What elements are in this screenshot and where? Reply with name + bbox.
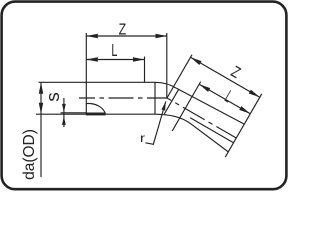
- break-out dome arc: [90, 104, 106, 114]
- dimension s: line: [63, 98, 65, 127]
- bore line at open left end: [86, 103, 90, 105]
- svg-text:s: s: [43, 92, 63, 102]
- pipe inner wall extension line for s: [61, 112, 87, 114]
- leader r: tail: [146, 143, 154, 145]
- dimension Z angled extension at vertex: [167, 55, 192, 98]
- tangent line across pipe at bend start: [154, 82, 156, 114]
- pipe bottom outer edge with bend curve and angled bottom edge: [36, 114, 228, 152]
- dimension L extension right: [144, 57, 146, 83]
- pipe left end face: [85, 33, 87, 114]
- angled end face with extensions: [225, 94, 262, 157]
- dimension L horizontal: line: [86, 59, 144, 61]
- border frame: [2, 2, 287, 190]
- dimension da(OD): line: [40, 82, 42, 177]
- dimension Z horizontal: line: [86, 35, 167, 37]
- dimension Z angled: line: [191, 57, 260, 97]
- svg-text:da(OD): da(OD): [21, 129, 38, 180]
- dimension L angled extension at tangent point: [172, 82, 201, 131]
- sectioned wall (blackened): [86, 113, 106, 116]
- bore line at open angled end: [190, 118, 233, 143]
- centerline angled (dash-dot): [167, 98, 236, 138]
- svg-text:r: r: [140, 131, 145, 145]
- svg-text:L: L: [222, 86, 236, 106]
- svg-text:Z: Z: [228, 64, 243, 83]
- pipe top outer edge with bend curve and angled top edge: [39, 82, 245, 124]
- dimension L angled: line: [199, 84, 250, 114]
- svg-text:Z: Z: [119, 22, 127, 39]
- leader r: line: [153, 101, 166, 144]
- centerline horizontal (dash-dot): [79, 97, 167, 99]
- svg-text:L: L: [111, 40, 117, 60]
- tangent line across angled leg at bend end: [164, 89, 178, 114]
- dimension Z extension right: [166, 33, 168, 98]
